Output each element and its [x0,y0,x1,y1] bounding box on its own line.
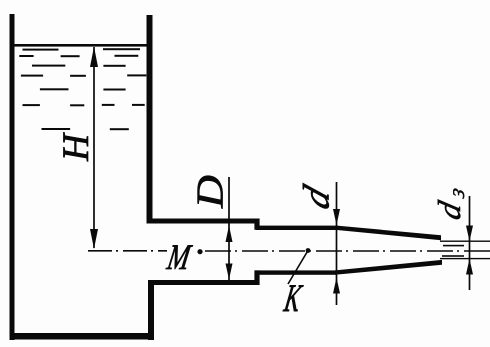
tank right wall upper [147,15,153,222]
pipe large top wall [147,219,260,224]
label M [166,245,193,269]
dimension H line [90,47,98,250]
node M dot [197,249,202,254]
pipe step bottom [254,270,259,285]
nozzle taper top wall [337,226,441,241]
pipe step top [254,219,259,230]
centerline [88,250,490,252]
nozzle exit extension line top [440,241,490,242]
dimension d line [333,182,340,305]
tank right wall lower [148,280,154,340]
nozzle inner bore dash bottom [442,255,464,257]
label d [303,183,329,210]
label d3 [438,188,464,220]
dimension D line [226,177,233,283]
tank bottom [10,333,155,340]
water dashes [19,48,146,130]
dimension d3 line [466,196,473,290]
water surface [14,44,147,47]
label K [283,285,304,311]
pipe small top wall [256,226,338,230]
label H [63,132,88,161]
nozzle taper bottom wall [335,260,442,275]
label D [198,176,223,209]
nozzle inner bore dash top [443,245,464,247]
pipe small bottom wall [255,270,336,274]
leader line K [288,248,310,284]
nozzle exit extension line bottom [440,258,490,259]
tank left wall [10,14,15,340]
pipe large bottom wall [148,280,260,285]
